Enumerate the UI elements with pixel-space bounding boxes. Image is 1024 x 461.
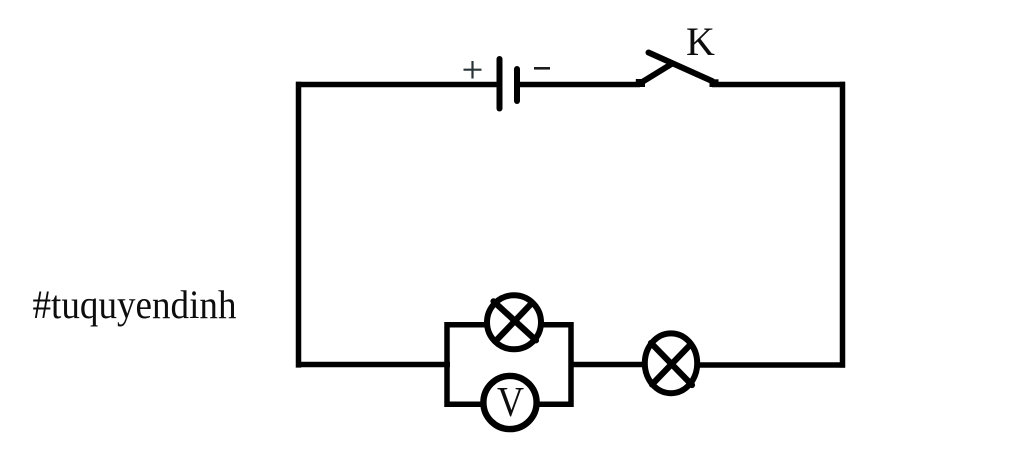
battery B1 positive plate (long) xyxy=(497,59,503,109)
wire: left vertical wall xyxy=(296,82,302,368)
svg-text:V: V xyxy=(497,380,524,426)
lamp L2 cross xyxy=(651,343,692,385)
wire: bottom left horizontal (left wall to parallel block) xyxy=(296,362,450,368)
svg-text:K: K xyxy=(686,19,715,64)
wire: switch to top-right corner xyxy=(712,82,845,88)
switch K right contact post xyxy=(710,79,719,87)
wire: bottom right horizontal (right wall to lamp L2) xyxy=(671,362,845,368)
label: - terminal xyxy=(534,67,550,70)
battery B1 negative plate (short) xyxy=(514,69,520,101)
wire: bottom between parallel block and lamp L2 xyxy=(571,362,650,368)
parallel block top branch wire xyxy=(445,322,574,328)
wire: right vertical wall xyxy=(840,82,846,368)
svg-text:#tuquyendinh: #tuquyendinh xyxy=(33,282,237,327)
switch K fixed throw segment xyxy=(641,64,672,83)
lamp L1 (circle) xyxy=(487,295,541,349)
lamp L1 cross xyxy=(494,301,537,340)
wire: top-left horizontal from corner to battery + plate xyxy=(296,82,498,88)
lamp L2 (ellipse) xyxy=(645,333,697,393)
wire: battery to switch xyxy=(517,82,640,88)
switch K lever blade (open) xyxy=(649,53,713,82)
parallel block bottom branch wire xyxy=(445,401,574,407)
switch K left contact post xyxy=(636,79,645,87)
parallel block right bar xyxy=(568,322,574,407)
label: + terminal xyxy=(464,61,482,79)
parallel block left bar xyxy=(444,322,450,407)
voltmeter V (circle) xyxy=(483,376,536,429)
